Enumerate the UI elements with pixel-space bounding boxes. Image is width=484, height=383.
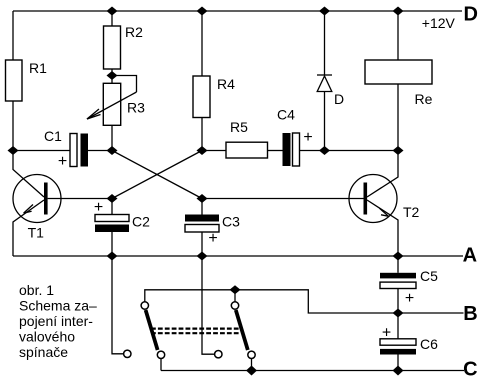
wire: C2 bottom lead (111, 232, 113, 256)
mechanical coupling dashed link (151, 329, 240, 334)
wire: C3 top lead (201, 199, 203, 215)
resistor R5 (226, 142, 268, 158)
node: C rail / C6 (393, 366, 404, 376)
wire: C4 right lead (300, 150, 325, 152)
svg-text:C4: C4 (277, 106, 295, 122)
wire: C1 right lead (88, 150, 112, 152)
resistor R2 (104, 26, 121, 69)
node: B junction (393, 309, 404, 318)
node: R1/C1 junction (8, 146, 19, 155)
svg-text:+: + (94, 199, 103, 216)
wire: R2-R3 link (111, 69, 113, 83)
capacitor C6 (380, 339, 416, 355)
node: diode anode junction (319, 146, 330, 155)
svg-text:+: + (58, 153, 67, 170)
svg-text:spínače: spínače (19, 344, 68, 360)
wire: node B rail (398, 312, 464, 314)
wire: R4 top lead (201, 11, 203, 76)
wire: relay bottom lead (397, 84, 399, 151)
capacitor C1 (70, 134, 88, 167)
svg-text:C5: C5 (420, 268, 438, 284)
node: switch pivot junction (230, 285, 241, 294)
svg-text:valového: valového (19, 329, 75, 345)
svg-text:pojení inter-: pojení inter- (19, 313, 93, 329)
node: C1/R3 junction (107, 146, 118, 155)
wire: left column R1 top lead (12, 11, 14, 60)
capacitor C3 (185, 215, 219, 233)
svg-text:R3: R3 (127, 100, 145, 116)
svg-text:+: + (208, 230, 217, 247)
wire: cross-coupling C1 node to T2 base node (112, 151, 202, 199)
wire: R4 bottom lead (201, 118, 203, 151)
wire: SW2 pivot drop (234, 290, 236, 302)
node: C rail / SW2 (246, 366, 257, 376)
wire: R3 bottom lead (111, 125, 113, 150)
svg-text:C1: C1 (44, 128, 62, 144)
wire: B to switch pivots (145, 290, 398, 313)
resistor R4 (193, 76, 210, 118)
node: top rail / R4 (197, 7, 208, 16)
node: T1 base / C2 junction (107, 194, 118, 203)
svg-text:T1: T1 (28, 225, 45, 241)
diode D (317, 75, 332, 92)
potentiometer R3 body (103, 83, 120, 125)
svg-text:obr. 1: obr. 1 (19, 282, 54, 298)
wire: diode cathode lead (324, 11, 326, 75)
svg-text:+: + (303, 129, 312, 146)
node: top rail / R2 (107, 7, 118, 16)
wire: C5 top lead (397, 256, 399, 273)
capacitor C2 (95, 215, 129, 233)
svg-text:+12V: +12V (422, 15, 456, 31)
svg-text:D: D (334, 91, 344, 107)
svg-text:R4: R4 (217, 76, 235, 92)
wire: cross-coupling R5 node to T1 base node (112, 151, 202, 199)
svg-text:R5: R5 (230, 119, 248, 135)
relay Re coil (365, 60, 432, 84)
capacitor C4 (283, 133, 300, 166)
wire: relay top lead (397, 11, 399, 60)
switch SW1 open contact (124, 350, 131, 357)
wire: C6 top lead (397, 313, 399, 339)
wire: top +12V rail (13, 10, 462, 12)
svg-text:R1: R1 (29, 60, 47, 76)
node: R4/R5 junction (197, 146, 208, 155)
wire: diode node to relay node (325, 150, 399, 152)
wire: R5 left lead (202, 150, 226, 152)
node: relay / T2 collector junction (393, 146, 404, 155)
wire: C2 top lead (111, 199, 113, 215)
switch SW1 (141, 302, 165, 371)
svg-text:+: + (382, 324, 391, 341)
node: emitter rail / C3 (197, 252, 208, 261)
wire: C5 bottom lead (397, 289, 399, 314)
switch SW2 (231, 302, 255, 371)
svg-text:B: B (463, 303, 477, 325)
wire: node C rail (161, 370, 464, 372)
wire: C3 bottom lead (201, 232, 203, 256)
svg-text:+: + (405, 290, 414, 307)
potentiometer R3 wiper arrow (87, 92, 137, 119)
svg-text:C6: C6 (420, 336, 438, 352)
switch SW2 open contact (215, 351, 222, 358)
svg-text:C: C (463, 358, 477, 380)
node: top rail / relay (393, 7, 404, 16)
wire: C2 column to SW1 open contact (112, 256, 123, 354)
svg-text:D: D (464, 3, 478, 25)
transistor T2 (202, 151, 398, 257)
wire: R2 top lead (111, 11, 113, 26)
transistor T1 (13, 151, 112, 257)
wire: C1 left lead (13, 150, 70, 152)
wire: R3 wiper bypass (112, 76, 137, 93)
wire: C3 column to SW2 open contact (202, 256, 214, 354)
node: T2 base / C3 junction (197, 194, 208, 203)
svg-text:C3: C3 (222, 214, 240, 230)
svg-text:Schema za–: Schema za– (19, 298, 97, 314)
wire: R5-C4 link (268, 150, 283, 152)
svg-text:C2: C2 (132, 214, 150, 230)
wire: emitter rail (node A line) (13, 255, 463, 257)
svg-text:Re: Re (415, 91, 433, 107)
node: R2/R3 junction (107, 71, 118, 80)
wire: diode anode lead (324, 92, 326, 151)
node: emitter rail / T2 emitter (393, 252, 404, 261)
svg-text:T2: T2 (403, 204, 420, 220)
node: top rail / diode (319, 7, 330, 16)
wire: R1 bottom lead (12, 101, 14, 151)
wire: C6 bottom lead (397, 355, 399, 371)
svg-text:R2: R2 (125, 24, 143, 40)
svg-text:A: A (463, 245, 477, 267)
resistor R1 (6, 60, 23, 101)
node: emitter rail / C2 (107, 252, 118, 261)
capacitor C5 (380, 273, 416, 289)
